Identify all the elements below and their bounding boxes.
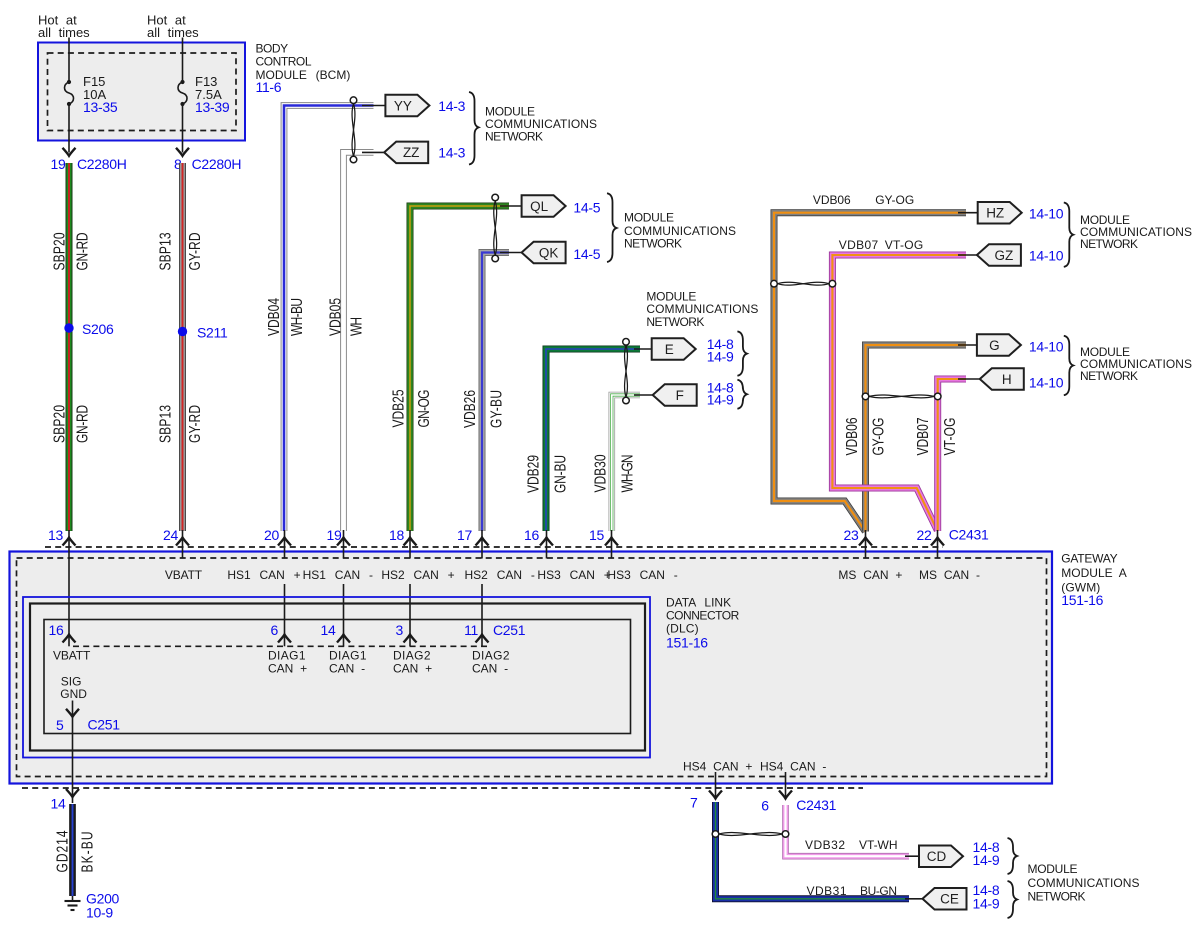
svg-text:GD214: GD214 [53,830,71,872]
svg-text:14-10: 14-10 [1029,375,1064,391]
svg-text:GY-BU: GY-BU [487,390,505,428]
svg-text:VDB07: VDB07 [839,238,879,252]
svg-text:ZZ: ZZ [403,145,420,160]
svg-text:VBATT: VBATT [165,568,203,582]
svg-text:5: 5 [56,717,64,733]
svg-text:WH-BU: WH-BU [287,298,305,336]
svg-text:COMMUNICATIONS: COMMUNICATIONS [1028,876,1140,890]
svg-text:C2431: C2431 [796,797,836,813]
svg-text:NETWORK: NETWORK [1028,889,1086,903]
svg-text:WH: WH [347,317,365,336]
svg-text:NETWORK: NETWORK [1080,237,1138,251]
svg-text:VDB26: VDB26 [460,390,478,428]
svg-text:VT-WH: VT-WH [859,838,898,852]
svg-text:VDB25: VDB25 [389,389,407,427]
svg-text:VDB05: VDB05 [326,298,344,336]
svg-text:6: 6 [271,622,279,638]
svg-text:CAN -: CAN - [472,662,508,676]
svg-text:14-3: 14-3 [438,144,465,160]
svg-text:YY: YY [394,98,412,113]
svg-text:SBP13: SBP13 [156,405,174,443]
svg-text:SBP20: SBP20 [50,232,68,270]
svg-text:14-10: 14-10 [1029,248,1064,264]
svg-text:BK-BU: BK-BU [78,832,96,873]
svg-text:VDB32: VDB32 [805,838,845,852]
svg-text:13: 13 [48,527,63,543]
svg-text:GY-OG: GY-OG [875,193,914,207]
svg-text:GND: GND [60,687,87,701]
svg-text:WH-GN: WH-GN [618,455,636,493]
svg-text:BODY: BODY [256,42,289,56]
svg-text:17: 17 [457,527,472,543]
svg-text:S206: S206 [82,321,114,337]
svg-text:MODULE A: MODULE A [1061,566,1127,580]
svg-text:CAN -: CAN - [329,662,365,676]
svg-text:HZ: HZ [986,206,1004,221]
svg-text:GATEWAY: GATEWAY [1061,551,1117,565]
svg-text:11-6: 11-6 [256,79,282,95]
svg-text:VDB04: VDB04 [264,298,282,336]
svg-text:14-3: 14-3 [438,98,465,114]
svg-text:CONTROL: CONTROL [256,55,312,69]
svg-text:DIAG2: DIAG2 [393,649,431,663]
svg-text:14-9: 14-9 [707,392,734,408]
svg-text:VDB06: VDB06 [813,193,851,207]
svg-text:DIAG1: DIAG1 [329,649,367,663]
svg-text:6: 6 [761,798,769,814]
svg-text:15: 15 [589,527,604,543]
svg-text:14-9: 14-9 [973,895,1000,911]
svg-text:BU-GN: BU-GN [860,884,897,898]
svg-text:COMMUNICATIONS: COMMUNICATIONS [646,302,758,316]
svg-text:VDB06: VDB06 [842,417,860,455]
svg-text:HS4 CAN -: HS4 CAN - [760,759,826,773]
svg-text:HS1 CAN -: HS1 CAN - [303,568,373,582]
svg-text:HS1 CAN +: HS1 CAN + [227,568,300,582]
svg-text:23: 23 [844,527,859,543]
svg-text:GN-BU: GN-BU [551,455,569,493]
svg-text:14: 14 [321,622,336,638]
svg-text:14-9: 14-9 [707,349,734,365]
svg-text:F: F [676,388,684,403]
svg-text:HS2 CAN +: HS2 CAN + [381,568,454,582]
svg-text:GN-RD: GN-RD [73,233,91,271]
svg-text:18: 18 [389,527,404,543]
svg-text:3: 3 [396,622,404,638]
svg-text:all times: all times [147,25,199,40]
svg-text:NETWORK: NETWORK [485,129,543,143]
svg-text:C2431: C2431 [949,527,989,543]
svg-text:14: 14 [51,796,66,812]
svg-text:DIAG1: DIAG1 [268,649,306,663]
svg-text:VBATT: VBATT [53,649,91,663]
svg-text:NETWORK: NETWORK [646,315,704,329]
svg-text:20: 20 [264,527,279,543]
svg-text:22: 22 [917,527,932,543]
svg-text:16: 16 [49,622,64,638]
svg-text:NETWORK: NETWORK [1080,369,1138,383]
svg-text:MS CAN +: MS CAN + [838,568,902,582]
svg-text:C251: C251 [88,717,121,733]
svg-text:G: G [989,338,1000,353]
svg-text:14-10: 14-10 [1029,206,1064,222]
svg-text:10-9: 10-9 [86,905,113,921]
svg-text:HS4 CAN +: HS4 CAN + [683,759,752,773]
svg-text:VDB29: VDB29 [524,455,542,493]
svg-text:E: E [665,342,674,357]
svg-text:GN-OG: GN-OG [414,390,432,428]
svg-text:MS CAN -: MS CAN - [919,568,980,582]
svg-text:VDB30: VDB30 [591,454,609,492]
svg-text:DIAG2: DIAG2 [472,649,510,663]
svg-text:S211: S211 [197,325,228,341]
svg-text:19: 19 [327,527,342,543]
svg-text:24: 24 [163,527,178,543]
svg-text:CAN +: CAN + [268,662,307,676]
svg-text:14-5: 14-5 [573,246,600,262]
svg-text:19: 19 [51,156,66,172]
svg-text:CONNECTOR: CONNECTOR [666,608,740,622]
svg-text:7: 7 [690,794,698,810]
svg-text:C2280H: C2280H [77,156,127,172]
svg-text:CAN +: CAN + [393,662,432,676]
svg-text:DATA LINK: DATA LINK [666,595,731,609]
svg-text:CD: CD [927,849,947,864]
svg-text:14-5: 14-5 [573,200,600,216]
svg-text:GY-RD: GY-RD [185,233,203,271]
svg-text:NETWORK: NETWORK [624,237,682,251]
svg-text:CE: CE [940,892,959,907]
svg-text:C251: C251 [493,622,526,638]
svg-text:C2280H: C2280H [192,156,242,172]
svg-text:all times: all times [38,25,90,40]
svg-text:MODULE: MODULE [1028,862,1078,876]
svg-text:GZ: GZ [995,248,1014,263]
svg-text:13-35: 13-35 [83,99,118,115]
svg-text:(DLC): (DLC) [666,621,699,635]
svg-text:11: 11 [464,622,478,638]
svg-text:16: 16 [524,527,539,543]
svg-text:GY-RD: GY-RD [185,405,203,443]
svg-text:MODULE: MODULE [624,211,674,225]
svg-text:SBP13: SBP13 [156,232,174,270]
svg-text:HS2 CAN -: HS2 CAN - [465,568,535,582]
svg-text:HS3 CAN +: HS3 CAN + [537,568,610,582]
svg-text:VT-OG: VT-OG [940,418,958,456]
svg-text:VDB31: VDB31 [807,884,847,898]
svg-text:HS3 CAN -: HS3 CAN - [607,568,677,582]
svg-text:VDB07: VDB07 [913,417,931,455]
svg-text:VT-OG: VT-OG [885,238,924,252]
svg-text:SBP20: SBP20 [50,405,68,443]
svg-text:151-16: 151-16 [1061,592,1103,608]
svg-text:14-10: 14-10 [1029,339,1064,355]
svg-text:QL: QL [530,199,549,214]
svg-text:13-39: 13-39 [195,99,230,115]
svg-text:GY-OG: GY-OG [869,418,887,456]
svg-text:151-16: 151-16 [666,635,708,651]
svg-text:QK: QK [539,245,559,260]
svg-text:14-9: 14-9 [973,852,1000,868]
svg-text:H: H [1002,372,1012,387]
svg-text:GN-RD: GN-RD [73,405,91,443]
